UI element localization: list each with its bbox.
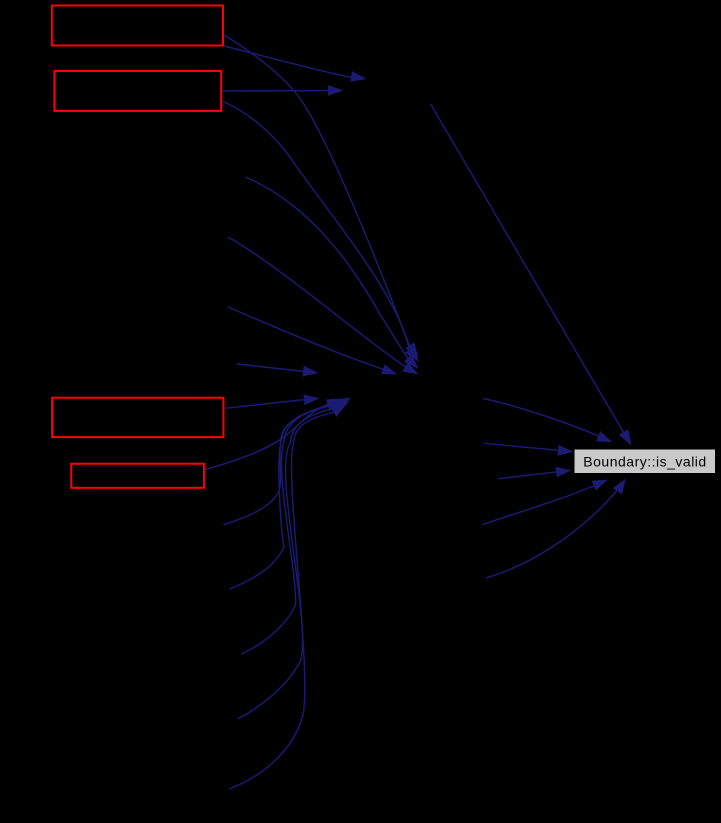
svg-text:Boundary::is_valid: Boundary::is_valid	[583, 454, 706, 470]
